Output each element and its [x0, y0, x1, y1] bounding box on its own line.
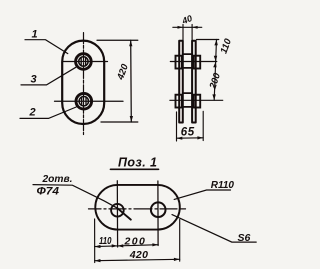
svg-text:2: 2 [29, 107, 36, 119]
svg-text:S6: S6 [238, 232, 251, 244]
svg-text:2отв.: 2отв. [42, 174, 73, 185]
dimension 420 front: dimension line [130, 40, 133, 122]
side view left plate [179, 41, 183, 123]
item label 2 [20, 107, 76, 118]
arrow 40 left [178, 26, 184, 29]
leader S6 [172, 215, 256, 243]
arrow 65 right [197, 136, 203, 139]
arrow 420 front bottom [130, 116, 133, 122]
front view vertical centerline [83, 33, 85, 135]
svg-text:420: 420 [129, 249, 148, 261]
leader R110 [174, 190, 230, 199]
side view upper bushing centerline [170, 61, 217, 63]
svg-text:65: 65 [181, 126, 195, 138]
dimension 40: dimension line [173, 26, 202, 28]
dimension 110/200: top extension line [197, 39, 219, 41]
item label 1 [25, 40, 68, 54]
side view lower bushing [176, 93, 201, 107]
leader 2otv F74 [33, 185, 117, 209]
arrowheads [95, 26, 218, 262]
side view lower bushing centerline [170, 99, 223, 101]
svg-text:Ф74: Ф74 [37, 185, 60, 197]
bottom view right hole [151, 202, 166, 217]
lower hole horizontal centerline [55, 100, 124, 102]
upper hole horizontal centerline [63, 61, 108, 63]
bottom view left hole [111, 204, 124, 217]
svg-text:200: 200 [124, 236, 147, 248]
bottom view right hole vertical centerline / extension [157, 181, 159, 246]
arrows 110 bottom row [95, 245, 101, 248]
bottom view horizontal centerline [89, 208, 186, 210]
svg-text:Поз. 1: Поз. 1 [118, 156, 157, 170]
arrow 420 front top [129, 40, 132, 46]
svg-text:110: 110 [99, 235, 112, 247]
side view right plate [192, 41, 196, 123]
item label 3 [21, 67, 76, 85]
bushing end in upper hole [76, 54, 92, 70]
dimension 110/200: dimension line [214, 40, 216, 101]
dimension 110/200/420 bottom: edge extension lines [95, 219, 180, 263]
arrow 200 bottom row right [152, 243, 158, 246]
dimension row 110/200 bottom [95, 245, 159, 247]
dimension 65: dimension line [177, 137, 204, 139]
dimension row 420 bottom [95, 259, 180, 260]
bottom view title underline [111, 168, 159, 170]
arrow 110/200 middle [214, 56, 217, 62]
bushing end in lower hole [76, 93, 92, 109]
dimension 420 front: extension lines [97, 40, 138, 122]
bottom view left hole vertical centerline / extension [116, 181, 118, 247]
svg-text:3: 3 [31, 74, 37, 86]
arrow 110 top [214, 40, 217, 46]
arrow 200 bottom [212, 94, 215, 100]
dimension 65: extension lines [177, 111, 204, 141]
arrow 65 left [177, 137, 183, 140]
side view upper bushing [176, 54, 201, 68]
svg-text:1: 1 [32, 29, 38, 41]
arrows 420 bottom row [95, 259, 101, 262]
arrow 40 right [192, 26, 198, 29]
bottom view plate outline [95, 185, 180, 230]
svg-text:R110: R110 [211, 180, 235, 191]
dimension 40: extension lines [183, 25, 192, 41]
front view plate outline [62, 41, 104, 124]
